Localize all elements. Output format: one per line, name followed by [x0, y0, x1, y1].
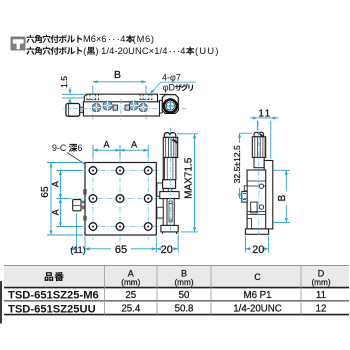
svg-text:32.5±12.5: 32.5±12.5	[232, 145, 242, 183]
screw head circle 1 (front view)	[91, 103, 101, 113]
table vertical rules	[105, 266, 302, 315]
svg-text:B: B	[114, 69, 121, 81]
svg-text:TSD-651SZ25UU: TSD-651SZ25UU	[8, 303, 96, 315]
dimension 1.5 (front view left)	[62, 88, 85, 105]
svg-text:25: 25	[125, 290, 136, 301]
centerline hole right (front view)	[145, 88, 147, 120]
svg-text:50.8: 50.8	[175, 304, 194, 315]
svg-text:B: B	[181, 268, 187, 278]
svg-text:4: 4	[180, 46, 185, 56]
clamp lever (side view)	[242, 191, 247, 202]
hex-socket-bolt icon	[11, 37, 26, 51]
hidden counterbore left (front view)	[87, 94, 99, 102]
svg-text:65: 65	[40, 186, 51, 198]
stage square plate (plan view)	[85, 163, 156, 236]
table horizontal rules	[4, 265, 349, 267]
svg-text:A: A	[103, 139, 109, 149]
left adjuster knob (front view)	[66, 104, 80, 117]
screw head circle 4 (front view)	[138, 103, 148, 113]
svg-text:1/4-20UNC: 1/4-20UNC	[233, 304, 281, 315]
dimension MAX71.5	[177, 134, 198, 232]
right bracket tab (front view)	[160, 93, 169, 95]
svg-text:11: 11	[316, 290, 326, 301]
base (side view)	[245, 229, 268, 234]
dimension A A (plan top)	[93, 145, 148, 158]
connecting block (front view)	[160, 100, 163, 113]
bottom-left step (side view)	[247, 219, 251, 229]
micrometer knurled head (plan view)	[164, 133, 176, 138]
svg-text:65: 65	[115, 244, 127, 256]
micrometer spindle (plan view)	[167, 199, 174, 226]
table header band	[4, 266, 349, 288]
svg-text:1/4-20UNC×1/4: 1/4-20UNC×1/4	[101, 46, 167, 56]
centerline horizontal (front view)	[63, 108, 186, 110]
dimension B (front view top)	[93, 82, 146, 94]
dimension 65 (plan left)	[47, 163, 83, 236]
svg-text:A: A	[128, 268, 134, 278]
svg-text:A: A	[131, 139, 137, 149]
hidden counterbore right (front view)	[140, 94, 152, 102]
dimension 20 (plan bottom)	[156, 233, 178, 253]
note line2 kanji 六角穴付ボルト(黒)	[26, 47, 82, 55]
svg-text:C: C	[254, 272, 261, 282]
9 tapped holes 3x3 (plan view)	[89, 167, 152, 231]
micrometer clamp plate (plan view)	[160, 192, 179, 199]
svg-text:(UU): (UU)	[195, 46, 220, 56]
svg-text:): )	[96, 46, 99, 56]
center stop blocks (front view)	[113, 105, 118, 110]
clamp pads on left edge (plan view)	[83, 189, 86, 195]
svg-text:TSD-651SZ25-M6: TSD-651SZ25-M6	[8, 290, 99, 302]
side clamp knob (plan view)	[73, 200, 81, 211]
svg-text:(M6): (M6)	[133, 34, 155, 44]
side view centerline	[258, 122, 260, 237]
hole centerlines vertical (plan)	[93, 158, 148, 253]
svg-text:φD: φD	[163, 83, 176, 93]
svg-text:A: A	[50, 181, 60, 187]
svg-text:D: D	[318, 268, 325, 278]
svg-text:(mm): (mm)	[174, 278, 193, 287]
svg-text:A: A	[50, 209, 60, 215]
leader and label 4-φ7 φDザグリ	[151, 82, 196, 93]
main body (front view)	[83, 102, 159, 116]
dimension 11 (side view top)	[250, 118, 278, 159]
svg-text:25.4: 25.4	[121, 304, 140, 315]
svg-text:20: 20	[252, 244, 264, 256]
note line1 kanji 六角穴付ボルト	[26, 35, 82, 43]
saddle band (side view)	[247, 211, 266, 214]
svg-text:B: B	[277, 195, 288, 202]
dimension (11) (plan bottom)	[70, 213, 77, 253]
page edge marker	[0, 281, 2, 324]
dimension A A (plan left)	[57, 171, 83, 227]
svg-text:(mm): (mm)	[121, 278, 140, 287]
svg-text:50: 50	[179, 290, 190, 301]
svg-text:6: 6	[78, 143, 83, 153]
svg-text:20: 20	[161, 244, 173, 256]
screw head circle 3 (front view)	[128, 100, 139, 111]
svg-text:11: 11	[258, 108, 271, 119]
svg-text:12: 12	[316, 304, 327, 315]
micrometer base foot (plan view)	[161, 225, 178, 232]
table header 品番	[45, 272, 53, 281]
svg-text:M6 P1: M6 P1	[244, 290, 272, 301]
svg-text:(: (	[83, 46, 87, 56]
dimension 20 (side view bottom)	[245, 236, 268, 253]
micrometer barrel (plan view)	[164, 158, 176, 180]
micrometer barrel (side view)	[254, 157, 264, 167]
dimension 32.5±12.5 (side view)	[240, 133, 253, 198]
svg-text:···: ···	[108, 34, 121, 44]
svg-text:4-φ7: 4-φ7	[162, 72, 181, 82]
svg-text:9-C: 9-C	[52, 143, 67, 153]
centerline middle (front view)	[120, 99, 122, 120]
side body block (side view)	[264, 161, 273, 229]
svg-text:(mm): (mm)	[311, 278, 330, 287]
top plate (front view)	[84, 94, 157, 102]
cam knob octagon (front view)	[162, 95, 178, 114]
micrometer knurled cap (side view)	[252, 137, 265, 158]
micrometer nub (side view)	[254, 132, 264, 137]
dimension 65 (plan bottom)	[85, 237, 156, 253]
cam knob ring (front view)	[164, 100, 177, 113]
svg-text:MAX71.5: MAX71.5	[184, 157, 195, 199]
svg-text:(11): (11)	[70, 245, 85, 255]
svg-text:1.5: 1.5	[59, 76, 69, 88]
hole centerlines horizontal (plan)	[68, 171, 160, 227]
micrometer centerline (plan view)	[170, 128, 172, 233]
centerline hole left (front view)	[92, 88, 94, 120]
screw head circle 2 (front view)	[102, 100, 113, 111]
svg-text:4: 4	[120, 34, 125, 44]
dovetail strip (plan view)	[162, 157, 164, 232]
dimension B (side view right)	[274, 170, 291, 222]
svg-text:M6×6: M6×6	[83, 34, 107, 44]
cam knob center cross (front view)	[166, 102, 174, 110]
